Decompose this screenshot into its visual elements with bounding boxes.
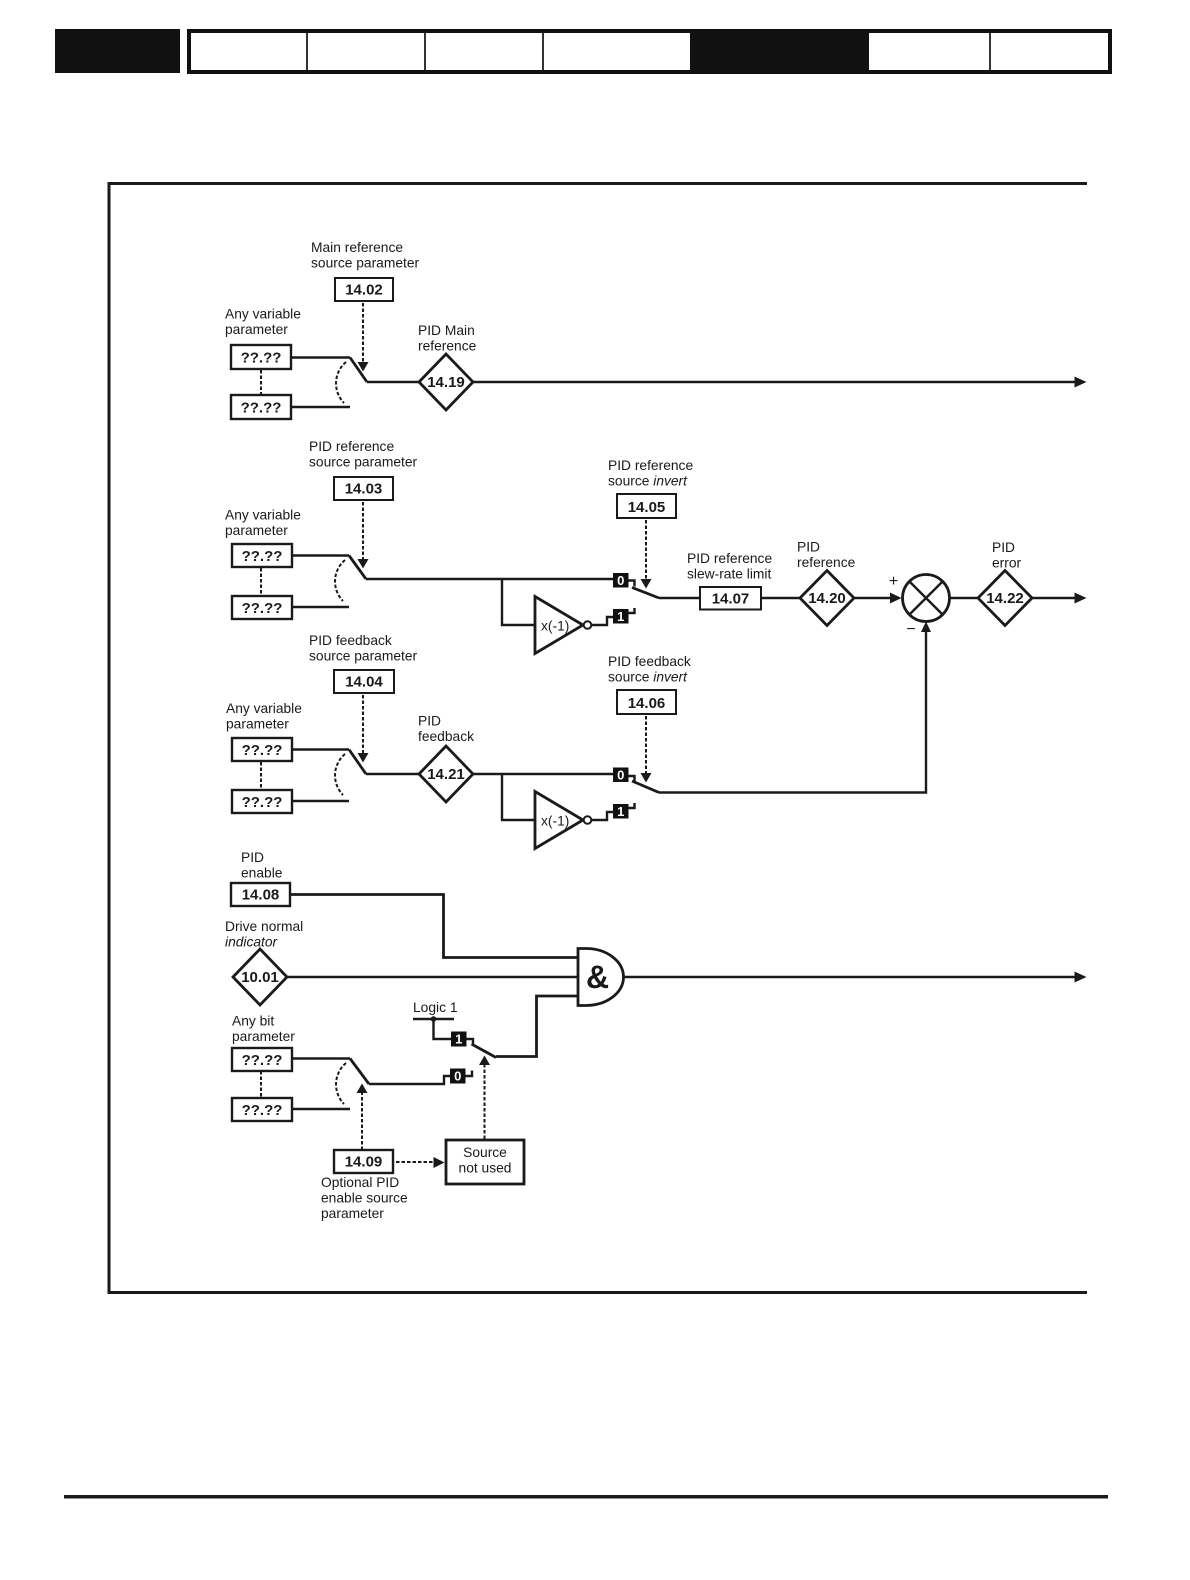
dashed pointer 14.09 to Source-not-used bbox=[396, 1157, 445, 1168]
switch arm row4 bbox=[350, 1059, 369, 1085]
third input wire to AND gate bbox=[496, 996, 578, 1057]
logic 1 rail bbox=[413, 1016, 454, 1022]
wire logic1 to contact 1 bbox=[434, 1019, 452, 1039]
svg-text:14.03: 14.03 bbox=[345, 481, 383, 498]
dashed link between source boxes bbox=[260, 762, 262, 789]
source box ??.?? (upper, bit) bbox=[232, 1048, 292, 1071]
svg-text:PID: PID bbox=[418, 714, 441, 729]
source box ??.?? (lower) bbox=[231, 395, 291, 419]
dashed link between source boxes bbox=[260, 1071, 262, 1097]
box: Source not used bbox=[446, 1140, 524, 1184]
svg-text:Drive normal: Drive normal bbox=[225, 919, 303, 934]
wire bit switch to contact 0 bbox=[369, 1076, 450, 1084]
dashed pointer from 14.03 to switch bbox=[358, 502, 369, 569]
svg-text:Main reference: Main reference bbox=[311, 240, 403, 255]
svg-text:1: 1 bbox=[617, 804, 624, 819]
label: Any bit parameter bbox=[232, 1014, 295, 1045]
contact 1 (row2) bbox=[613, 608, 635, 624]
svg-text:14.08: 14.08 bbox=[242, 887, 280, 904]
label: PID feedback source invert bbox=[608, 654, 691, 685]
svg-text:??.??: ??.?? bbox=[242, 1052, 283, 1069]
label: Any variable parameter bbox=[225, 508, 301, 539]
label: Drive normal indicator bbox=[225, 919, 303, 950]
parameter box 14.03 bbox=[334, 477, 393, 500]
svg-text:PID: PID bbox=[992, 540, 1015, 555]
label: Any variable parameter bbox=[226, 701, 302, 732]
svg-text:enable: enable bbox=[241, 866, 283, 881]
svg-text:1: 1 bbox=[617, 609, 624, 624]
svg-text:PID reference: PID reference bbox=[309, 439, 394, 454]
contact 1 (enable) bbox=[451, 1032, 473, 1047]
dashed pointer from 14.02 to switch bbox=[358, 303, 369, 372]
output wire row1 bbox=[473, 377, 1087, 388]
svg-text:Any variable: Any variable bbox=[225, 307, 301, 322]
parameter diamond 10.01 bbox=[233, 949, 287, 1005]
svg-text:??.??: ??.?? bbox=[241, 400, 282, 417]
branch to inverter row3 bbox=[502, 774, 535, 820]
switch selector arc row4 bbox=[336, 1063, 346, 1104]
wire from upper source box bbox=[292, 554, 349, 556]
svg-text:??.??: ??.?? bbox=[242, 794, 283, 811]
wire 14.08 to AND gate bbox=[290, 895, 578, 958]
svg-text:enable source: enable source bbox=[321, 1191, 408, 1206]
svg-text:14.19: 14.19 bbox=[427, 374, 465, 391]
wire 14.20 to summer bbox=[854, 593, 902, 604]
svg-text:14.22: 14.22 bbox=[986, 590, 1024, 607]
label: PID reference slew-rate limit bbox=[687, 551, 772, 582]
svg-text:14.07: 14.07 bbox=[712, 591, 750, 608]
invert switch arm row2 bbox=[632, 588, 659, 599]
contact 0 (enable) bbox=[450, 1069, 472, 1084]
inverter x(-1) row2 bbox=[535, 597, 591, 654]
label: PID reference (above 14.20) bbox=[797, 540, 856, 571]
svg-text:Source: Source bbox=[463, 1145, 507, 1160]
svg-text:PID feedback: PID feedback bbox=[608, 654, 691, 669]
label: PID Main reference bbox=[418, 323, 477, 354]
output wire row4 bbox=[624, 972, 1087, 983]
svg-text:14.20: 14.20 bbox=[808, 590, 846, 607]
svg-text:reference: reference bbox=[418, 339, 477, 354]
svg-text:Any variable: Any variable bbox=[225, 508, 301, 523]
svg-text:??.??: ??.?? bbox=[242, 742, 283, 759]
wire from lower source box bbox=[291, 406, 350, 408]
wire switch to diamond 14.19 bbox=[367, 381, 421, 383]
dashed link between source boxes bbox=[260, 568, 262, 595]
wire inverter to contact 1 bbox=[592, 617, 614, 625]
svg-text:1: 1 bbox=[455, 1032, 462, 1047]
svg-text:Any bit: Any bit bbox=[232, 1014, 274, 1029]
footer rule bbox=[64, 1495, 1108, 1499]
parameter box 14.04 bbox=[334, 670, 394, 693]
svg-text:reference: reference bbox=[797, 555, 856, 570]
svg-text:PID Main: PID Main bbox=[418, 323, 475, 338]
switch arm row2 bbox=[349, 556, 366, 580]
svg-text:14.02: 14.02 bbox=[345, 282, 383, 299]
switch selector arc row1 bbox=[336, 362, 346, 403]
wire switch to diamond 14.21 bbox=[366, 773, 421, 775]
switch selector arc row2 bbox=[335, 560, 345, 601]
svg-text:14.21: 14.21 bbox=[427, 766, 465, 783]
main wire to invert switch bbox=[366, 578, 613, 580]
wire summer to 14.22 bbox=[950, 597, 981, 599]
switch selector arc row3 bbox=[335, 754, 345, 795]
svg-text:PID reference: PID reference bbox=[608, 458, 693, 473]
label: Main reference source parameter bbox=[311, 240, 420, 271]
svg-text:source invert: source invert bbox=[608, 670, 688, 685]
svg-text:parameter: parameter bbox=[225, 322, 288, 337]
parameter box 14.09 bbox=[334, 1150, 393, 1173]
label: PID error bbox=[992, 540, 1022, 571]
branch to inverter bbox=[502, 579, 535, 625]
svg-text:not used: not used bbox=[459, 1161, 512, 1176]
svg-text:parameter: parameter bbox=[226, 717, 289, 732]
wire from lower source box bbox=[292, 606, 349, 608]
label: PID feedback source parameter bbox=[309, 633, 418, 664]
diagram frame (open right side) bbox=[109, 184, 1087, 1293]
svg-text:PID: PID bbox=[241, 850, 264, 865]
source box ??.?? (upper) bbox=[232, 544, 292, 567]
svg-text:feedback: feedback bbox=[418, 729, 474, 744]
svg-text:PID feedback: PID feedback bbox=[309, 633, 392, 648]
svg-text:+: + bbox=[889, 573, 898, 590]
dashed pointer from Source-not-used up to arm bbox=[479, 1056, 490, 1140]
svg-text:x(-1): x(-1) bbox=[541, 619, 569, 634]
parameter box 14.07 bbox=[700, 587, 761, 610]
parameter box 14.08 bbox=[231, 883, 290, 906]
svg-text:0: 0 bbox=[617, 768, 624, 783]
svg-text:0: 0 bbox=[454, 1069, 461, 1084]
svg-text:14.09: 14.09 bbox=[345, 1154, 383, 1171]
svg-text:14.05: 14.05 bbox=[628, 499, 666, 516]
svg-text:indicator: indicator bbox=[225, 935, 279, 950]
svg-text:source parameter: source parameter bbox=[311, 256, 420, 271]
parameter diamond 14.20 bbox=[800, 571, 854, 626]
wire from upper source box bbox=[292, 748, 349, 750]
svg-text:Logic 1: Logic 1 bbox=[413, 1000, 458, 1015]
invert switch arm row3 bbox=[632, 781, 659, 793]
parameter diamond 14.22 bbox=[978, 571, 1032, 626]
svg-text:Optional PID: Optional PID bbox=[321, 1175, 399, 1190]
svg-text:PID: PID bbox=[797, 540, 820, 555]
svg-text:parameter: parameter bbox=[232, 1029, 295, 1044]
label: PID feedback (above 14.21) bbox=[418, 714, 474, 745]
dashed pointer from 14.05 bbox=[641, 520, 652, 589]
parameter box 14.05 bbox=[617, 494, 676, 518]
svg-text:source parameter: source parameter bbox=[309, 455, 418, 470]
parameter box 14.06 bbox=[617, 690, 676, 714]
header logo block bbox=[55, 29, 180, 73]
dashed pointer from 14.09 up to switch bbox=[357, 1084, 368, 1151]
svg-text:source parameter: source parameter bbox=[309, 649, 418, 664]
AND gate U1 bbox=[578, 949, 624, 1006]
svg-text:Any variable: Any variable bbox=[226, 701, 302, 716]
summing junction bbox=[903, 575, 950, 622]
contact 0 (row3) bbox=[613, 768, 635, 783]
svg-text:error: error bbox=[992, 556, 1022, 571]
output wire row2 bbox=[1032, 593, 1087, 604]
switch arm row3 bbox=[349, 750, 366, 775]
svg-text:−: − bbox=[906, 621, 915, 638]
wire to 14.20 bbox=[761, 597, 802, 599]
wire from lower bit box bbox=[292, 1108, 350, 1110]
svg-text:14.06: 14.06 bbox=[628, 695, 666, 712]
source box ??.?? (upper) bbox=[231, 345, 291, 369]
dashed pointer from 14.04 bbox=[358, 695, 369, 763]
inverter x(-1) row3 bbox=[535, 792, 591, 849]
source box ??.?? (lower) bbox=[232, 596, 292, 619]
contact 0 (row2) bbox=[613, 573, 635, 588]
label: PID reference source parameter bbox=[309, 439, 418, 470]
label: PID enable bbox=[241, 850, 283, 881]
wire 14.21 to invert switch bbox=[473, 773, 613, 775]
label: Optional PID enable source parameter bbox=[321, 1175, 408, 1221]
source box ??.?? (lower, bit) bbox=[232, 1098, 292, 1121]
parameter box 14.02 bbox=[335, 278, 393, 301]
source box ??.?? (lower) bbox=[232, 790, 292, 813]
svg-text:source invert: source invert bbox=[608, 474, 688, 489]
svg-text:10.01: 10.01 bbox=[241, 969, 279, 986]
svg-text:??.??: ??.?? bbox=[242, 548, 283, 565]
parameter diamond 14.21 bbox=[419, 746, 473, 802]
svg-text:??.??: ??.?? bbox=[241, 350, 282, 367]
svg-text:0: 0 bbox=[617, 573, 624, 588]
label: PID reference source invert bbox=[608, 458, 693, 489]
source box ??.?? (upper) bbox=[232, 738, 292, 761]
svg-text:&: & bbox=[586, 959, 609, 995]
dashed pointer from 14.06 bbox=[641, 716, 652, 783]
contact 1 (row3) bbox=[613, 803, 635, 819]
header tab table bbox=[189, 31, 1110, 72]
svg-text:PID reference: PID reference bbox=[687, 551, 772, 566]
svg-text:??.??: ??.?? bbox=[242, 1102, 283, 1119]
label: Any variable parameter bbox=[225, 307, 301, 338]
parameter diamond 14.19 bbox=[419, 354, 473, 410]
wire from lower source box bbox=[292, 800, 349, 802]
wire inverter to contact 1 row3 bbox=[592, 812, 614, 820]
feedback wire to summer bbox=[659, 622, 931, 793]
wire from upper bit box bbox=[292, 1057, 350, 1059]
svg-text:14.04: 14.04 bbox=[345, 674, 383, 691]
enable switch arm bbox=[472, 1044, 497, 1058]
wire from upper source box bbox=[291, 356, 350, 358]
svg-text:slew-rate limit: slew-rate limit bbox=[687, 567, 771, 582]
svg-text:parameter: parameter bbox=[321, 1206, 384, 1221]
wire 10.01 to AND gate bbox=[287, 976, 578, 978]
wire to 14.07 bbox=[659, 597, 700, 599]
svg-text:??.??: ??.?? bbox=[242, 600, 283, 617]
svg-text:parameter: parameter bbox=[225, 523, 288, 538]
dashed link between source boxes bbox=[260, 370, 262, 394]
switch arm row1 bbox=[350, 358, 367, 383]
svg-text:x(-1): x(-1) bbox=[541, 814, 569, 829]
